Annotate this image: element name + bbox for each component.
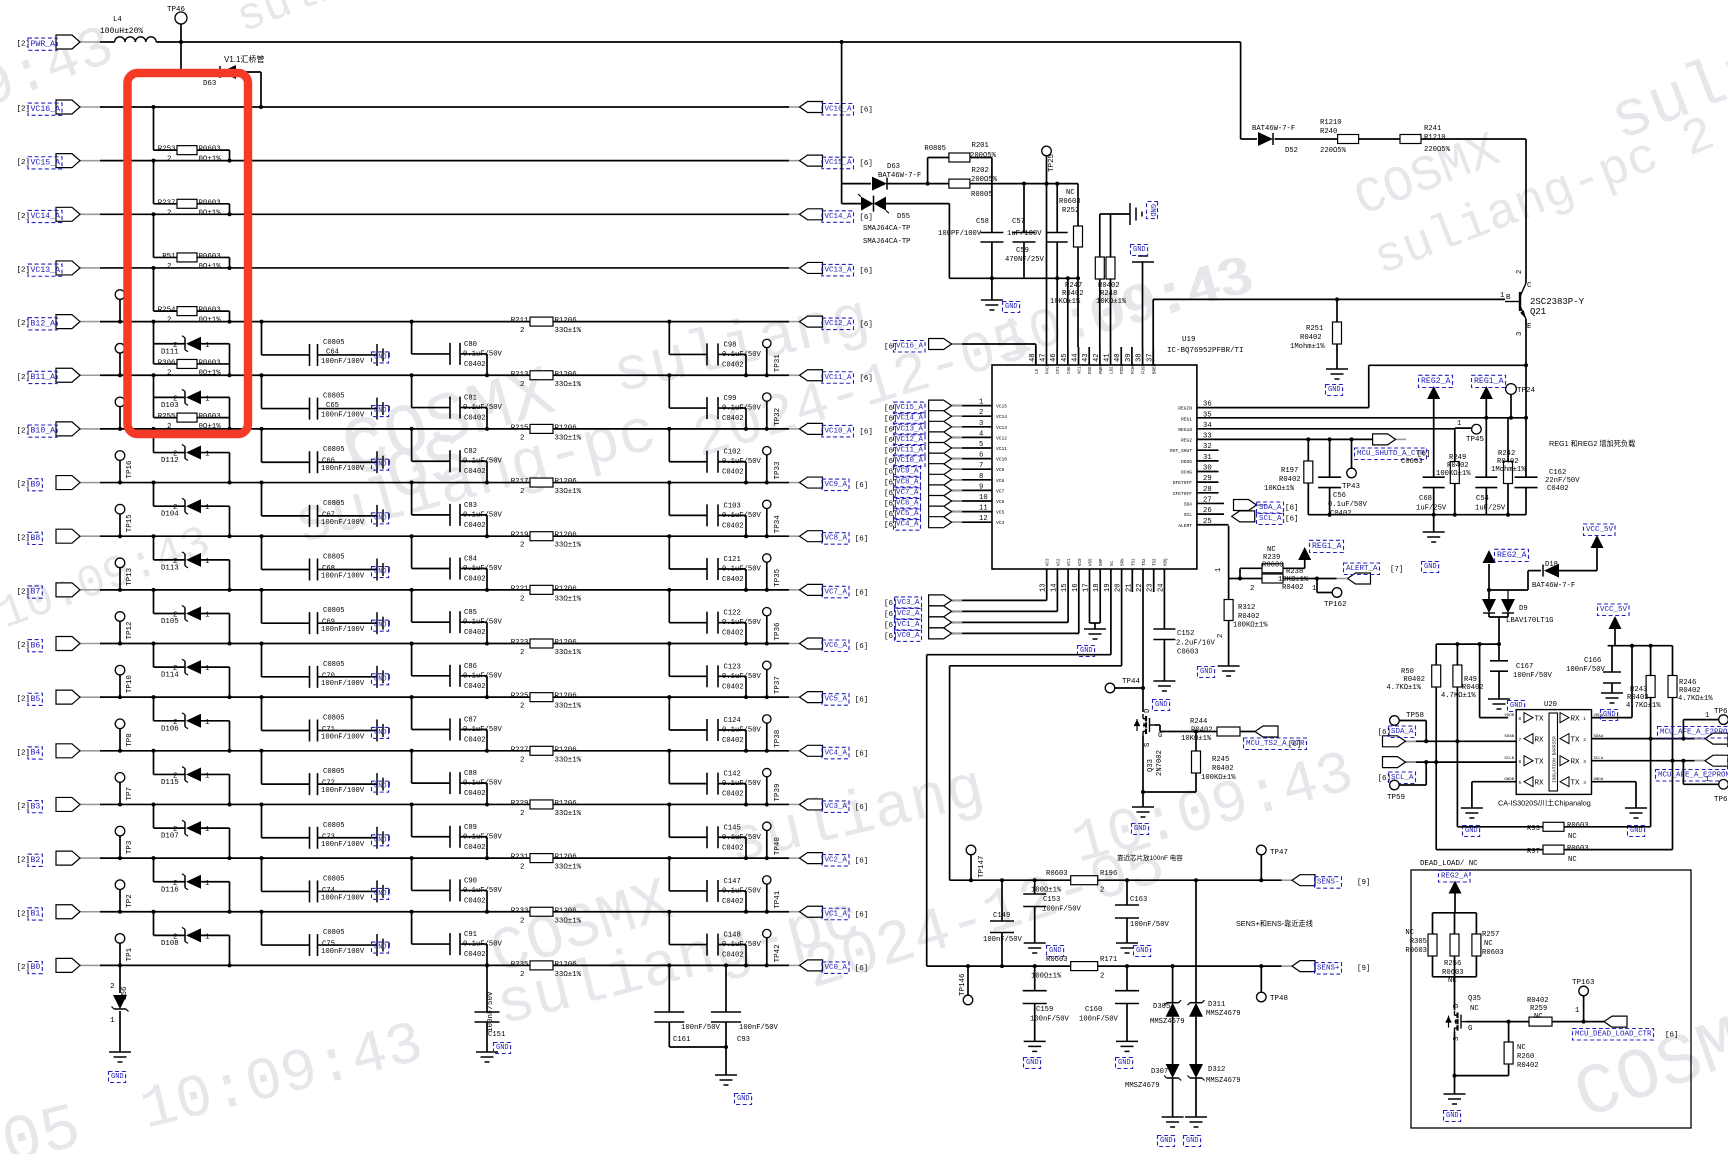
label C83	[463, 502, 503, 530]
svg-text:MMSZ4679: MMSZ4679	[1125, 1082, 1160, 1090]
svg-text:100nF/50V: 100nF/50V	[1566, 666, 1606, 674]
svg-text:100nF/100V: 100nF/100V	[321, 680, 365, 688]
ground C159	[1024, 1041, 1046, 1051]
junction R251 base	[1335, 297, 1339, 301]
label C121	[722, 556, 762, 584]
ground label Q33	[1132, 824, 1149, 835]
wire R51 left	[154, 214, 178, 257]
svg-text:VC13: VC13	[996, 425, 1007, 431]
wire C167 column	[1498, 659, 1500, 661]
svg-text:2: 2	[520, 488, 524, 496]
svg-text:GND: GND	[374, 514, 387, 522]
svg-text:0.1uF/50V: 0.1uF/50V	[463, 619, 503, 627]
test point TP34	[763, 500, 782, 536]
wire C149 top	[1001, 880, 1003, 921]
svg-text:VC2: VC2	[1057, 558, 1061, 566]
svg-text:PDSG: PDSG	[1121, 363, 1125, 374]
wire SDAB line	[1403, 740, 1516, 742]
svg-text:VC12_A: VC12_A	[825, 320, 853, 328]
svg-text:0.1uF/50V: 0.1uF/50V	[722, 458, 762, 466]
svg-text:MMSZ4679: MMSZ4679	[1206, 1077, 1241, 1085]
diode D115	[161, 766, 210, 787]
ground label C75	[372, 942, 389, 953]
junction PWR/TP46	[179, 40, 183, 44]
wire GNDA	[1592, 782, 1637, 808]
svg-text:1uF/25V: 1uF/25V	[1416, 505, 1447, 513]
capacitor C66	[310, 451, 318, 473]
wire C68 right	[318, 569, 378, 571]
junction VDDB rail	[1478, 642, 1482, 646]
test point TP33	[763, 447, 782, 483]
wire D106 left	[154, 697, 186, 721]
net label VC11_A IC	[894, 445, 926, 457]
svg-text:C0805: C0805	[323, 768, 345, 776]
net label VC14_A IC	[894, 413, 926, 425]
diode D307	[1164, 1064, 1181, 1081]
svg-text:2: 2	[520, 810, 524, 818]
resistor R241	[1400, 135, 1421, 144]
wire R248 down to pin41	[1110, 279, 1112, 347]
wire C88 right	[460, 783, 487, 804]
capacitor C64	[310, 344, 318, 366]
svg-text:R231: R231	[511, 854, 529, 862]
svg-text:D106: D106	[161, 725, 179, 733]
junction C74	[260, 856, 264, 860]
svg-text:100KΩ±1%: 100KΩ±1%	[1436, 470, 1471, 478]
svg-text:TP8: TP8	[126, 733, 134, 747]
svg-text:42: 42	[1093, 353, 1101, 362]
svg-text:C121: C121	[724, 556, 741, 564]
wire C102 right	[718, 462, 746, 483]
svg-text:DFETOFF: DFETOFF	[1173, 480, 1193, 486]
svg-text:D: D	[1144, 709, 1152, 713]
svg-text:TP1: TP1	[126, 947, 134, 961]
svg-text:TP3: TP3	[126, 840, 134, 854]
capacitor C91	[450, 933, 460, 955]
junction D107 bottom	[228, 856, 232, 860]
wire R97 line	[1436, 762, 1543, 850]
wire C166 bottom	[1611, 683, 1613, 693]
wire IC pin 6	[952, 458, 993, 460]
transistor Q21	[1519, 292, 1521, 311]
svg-text:TP34: TP34	[774, 515, 782, 534]
svg-text:C0402: C0402	[722, 415, 744, 423]
junction C93 gnd	[724, 1045, 728, 1049]
svg-text:[6]: [6]	[859, 321, 873, 329]
svg-text:TP44: TP44	[1122, 678, 1141, 686]
svg-text:C0402: C0402	[464, 844, 486, 852]
wire IC pin 12	[952, 521, 993, 523]
svg-text:39: 39	[1125, 353, 1133, 362]
wire TP58 link	[1399, 721, 1426, 742]
capacitor C84	[450, 558, 460, 580]
junction C124 top	[667, 695, 671, 699]
wire C123 right	[718, 676, 746, 697]
svg-text:R233: R233	[511, 907, 529, 915]
wire D9 out	[1489, 613, 1508, 644]
svg-text:PCHG: PCHG	[1132, 363, 1136, 374]
wire REG2 stem2	[1488, 564, 1490, 599]
net label VC16_A IC	[894, 341, 926, 353]
wire REG2 deadload stem	[1454, 894, 1456, 913]
svg-text:TS1: TS1	[1132, 558, 1136, 566]
wire row B2	[100, 857, 789, 859]
svg-text:R1206: R1206	[555, 693, 577, 701]
IC U19 bottom pin 21 stub	[1131, 569, 1133, 592]
svg-text:VC7: VC7	[996, 488, 1005, 494]
wire R197 bottom	[1307, 483, 1309, 515]
ground label GNDA	[1628, 826, 1645, 837]
svg-text:C0805: C0805	[323, 929, 345, 937]
wire VC16 flag to pin48	[952, 344, 1036, 365]
svg-text:220Ω5%: 220Ω5%	[1424, 146, 1451, 154]
junction D106 top	[152, 695, 156, 699]
net flag VC15_A to IC	[929, 400, 963, 411]
capacitor C72	[310, 773, 318, 795]
ground C68	[377, 559, 389, 581]
svg-text:ALERT_A: ALERT_A	[1346, 565, 1378, 573]
wire D113 left	[154, 536, 186, 560]
svg-text:4.7KΩ±1%: 4.7KΩ±1%	[1678, 695, 1713, 703]
svg-text:R0805: R0805	[971, 191, 993, 199]
svg-text:D52: D52	[1285, 147, 1298, 155]
svg-text:VC16_A: VC16_A	[31, 105, 61, 114]
svg-text:2N7002: 2N7002	[1156, 750, 1164, 776]
svg-text:0.1uF/50V: 0.1uF/50V	[722, 726, 762, 734]
junction D311 top	[1194, 878, 1198, 882]
junction C83 bottom	[485, 534, 489, 538]
junction R237 top	[152, 159, 156, 163]
svg-text:C0402: C0402	[464, 683, 486, 691]
svg-text:GND: GND	[111, 1073, 124, 1081]
svg-text:B0: B0	[31, 963, 41, 972]
wire row B3	[100, 803, 789, 805]
svg-text:C85: C85	[464, 609, 477, 617]
svg-text:B8: B8	[31, 534, 41, 543]
junction REG1 pin35	[1484, 416, 1488, 420]
svg-text:33Ω±1%: 33Ω±1%	[555, 917, 582, 925]
power flag REG2_A	[1419, 375, 1453, 399]
junction C99 top	[667, 373, 671, 377]
svg-text:C152: C152	[1177, 630, 1194, 638]
wire Q21 emitter	[1525, 319, 1527, 477]
svg-text:5: 5	[979, 441, 983, 449]
svg-text:C0402: C0402	[464, 736, 486, 744]
resistor R254	[158, 307, 221, 325]
wire D305 top	[1172, 966, 1174, 1002]
capacitor C75	[310, 934, 318, 956]
svg-text:[6]: [6]	[855, 858, 869, 866]
svg-text:33Ω±1%: 33Ω±1%	[555, 649, 582, 657]
wire R202 net down	[1077, 184, 1079, 226]
wire C73 right	[318, 837, 378, 839]
capacitor C70	[310, 666, 318, 688]
ground label C161 C93	[735, 1094, 752, 1105]
IC U19 top pin 47 stub	[1045, 347, 1047, 365]
wire R245 bottom	[1143, 773, 1196, 792]
wire D108 right	[201, 935, 230, 965]
svg-text:GND: GND	[374, 568, 387, 576]
junction C122 top	[667, 588, 671, 592]
svg-text:TP36: TP36	[774, 622, 782, 641]
svg-text:TP40: TP40	[774, 837, 782, 856]
svg-text:PACK: PACK	[1046, 363, 1050, 374]
net flag VC4_A to IC	[929, 517, 963, 528]
svg-text:D113: D113	[161, 564, 179, 572]
net label SCL_A 2	[1389, 772, 1416, 784]
wire C65 right	[318, 408, 378, 410]
svg-text:45: 45	[1061, 353, 1069, 362]
junction TP33	[765, 481, 769, 485]
svg-text:33Ω±1%: 33Ω±1%	[555, 488, 582, 496]
svg-text:2: 2	[520, 756, 524, 764]
junction C122 bottom	[744, 642, 748, 646]
resistor R252	[1074, 226, 1083, 247]
svg-text:TP162: TP162	[1324, 601, 1347, 609]
wire C124 right	[718, 730, 746, 751]
svg-text:R1206: R1206	[555, 478, 577, 486]
svg-text:GND: GND	[374, 461, 387, 469]
svg-text:0.1uF/50V: 0.1uF/50V	[463, 726, 503, 734]
connector B6	[17, 637, 102, 652]
svg-text:R201: R201	[972, 142, 989, 150]
svg-text:41: 41	[1104, 353, 1112, 362]
resistor R312	[1224, 600, 1233, 621]
ground C70	[377, 666, 389, 688]
junction TP18	[118, 373, 122, 377]
svg-text:R0402: R0402	[1279, 476, 1301, 484]
wire R243 bottom to SDAA	[1650, 698, 1652, 739]
junction C123 top	[667, 642, 671, 646]
ground label GNDB	[1463, 826, 1480, 837]
svg-text:0.1uF/50V: 0.1uF/50V	[463, 350, 503, 358]
svg-text:BREG: BREG	[1153, 363, 1157, 374]
svg-text:[6]: [6]	[859, 428, 873, 436]
svg-text:VC0_A: VC0_A	[897, 632, 920, 640]
wire C151 bottom	[486, 1022, 488, 1052]
svg-text:D305: D305	[1153, 1003, 1170, 1011]
svg-text:0Ω±1%: 0Ω±1%	[199, 317, 222, 325]
capacitor C87	[450, 718, 460, 740]
svg-text:DDSG: DDSG	[1181, 459, 1192, 465]
connector B4	[17, 744, 102, 759]
junction C85 bottom	[485, 642, 489, 646]
IC U19 body	[992, 365, 1197, 569]
net flag VC1_A	[789, 906, 868, 920]
net label VC7_A IC	[894, 487, 921, 499]
connector B0	[17, 958, 102, 973]
wire C75 left	[262, 912, 310, 945]
junction TP16	[118, 481, 122, 485]
test point TP38	[763, 715, 782, 751]
junction SDAA R243	[1649, 737, 1653, 741]
label C64	[321, 339, 365, 366]
junction C163 top	[1125, 878, 1129, 882]
junction C82 bottom	[485, 481, 489, 485]
svg-text:7: 7	[979, 462, 983, 470]
wire R49 bottom to SDA	[1456, 687, 1458, 741]
test point TP7	[115, 773, 134, 805]
svg-text:C0805: C0805	[323, 500, 345, 508]
svg-text:33Ω±1%: 33Ω±1%	[555, 864, 582, 872]
wire R50 bottom to SCL	[1435, 687, 1437, 762]
svg-text:R229: R229	[511, 800, 529, 808]
test point TP146	[959, 966, 973, 1005]
svg-text:TP16: TP16	[126, 460, 134, 479]
junction TP146	[966, 964, 970, 968]
label C85	[463, 609, 503, 637]
svg-text:C56: C56	[1333, 492, 1346, 500]
svg-text:SCL: SCL	[1184, 512, 1193, 518]
svg-text:3: 3	[1516, 332, 1524, 336]
ground C75	[377, 934, 389, 956]
svg-text:C0603: C0603	[1177, 649, 1199, 657]
wire C71 right	[318, 729, 378, 731]
junction D114 bottom	[228, 695, 232, 699]
resistor R245	[1192, 751, 1201, 773]
svg-text:6: 6	[979, 452, 983, 460]
resistor R213	[511, 371, 582, 389]
svg-text:R1206: R1206	[555, 532, 577, 540]
svg-text:SMAJ64CA-TP: SMAJ64CA-TP	[863, 225, 910, 233]
junction TP37	[765, 695, 769, 699]
junction SCLA R246	[1671, 759, 1675, 763]
capacitor C123	[707, 665, 718, 687]
svg-text:GND: GND	[1118, 1059, 1131, 1067]
junction C123 bottom	[744, 695, 748, 699]
svg-text:R260: R260	[1517, 1053, 1534, 1061]
junction SDAB TP58	[1424, 739, 1428, 743]
svg-text:8: 8	[979, 473, 983, 481]
net label VC15_A IC	[894, 402, 926, 414]
resistor R255	[158, 413, 221, 431]
resistor R246	[1668, 676, 1677, 698]
svg-text:100PF/100V: 100PF/100V	[938, 230, 982, 238]
svg-text:V1.1汇桥管: V1.1汇桥管	[224, 54, 264, 64]
junction TP42	[765, 963, 769, 967]
label C148	[722, 932, 762, 960]
svg-text:[6]: [6]	[855, 643, 869, 651]
label C84	[463, 556, 503, 584]
wire D111 pair left	[154, 322, 186, 364]
label C90	[463, 877, 503, 905]
svg-text:RX: RX	[1535, 737, 1545, 745]
svg-text:VC9_A: VC9_A	[896, 468, 919, 476]
wire R312 top	[1228, 579, 1230, 601]
test point TP18	[115, 343, 134, 375]
ground C64	[377, 344, 389, 366]
svg-text:2: 2	[1583, 737, 1586, 743]
svg-text:GND: GND	[1148, 204, 1156, 217]
junction C71	[260, 695, 264, 699]
ground Q33	[1132, 807, 1154, 817]
svg-text:2: 2	[167, 263, 171, 271]
svg-text:TP24: TP24	[1517, 387, 1536, 395]
svg-text:BAT46W-7-F: BAT46W-7-F	[878, 172, 921, 180]
svg-text:[6]: [6]	[884, 448, 898, 456]
svg-text:C0402: C0402	[722, 844, 744, 852]
svg-text:C162: C162	[1549, 469, 1566, 477]
svg-text:GND: GND	[1133, 246, 1146, 254]
svg-text:0.1uF/50V: 0.1uF/50V	[463, 672, 503, 680]
wire R202 out	[970, 183, 1078, 185]
resistor R227	[511, 746, 582, 764]
ground C161 C93	[715, 1075, 737, 1085]
svg-text:TX: TX	[1571, 780, 1581, 788]
junction R254 bottom	[228, 320, 232, 324]
svg-text:RX: RX	[1535, 780, 1545, 788]
svg-text:C151: C151	[488, 1031, 505, 1039]
wire C145 left	[669, 804, 707, 837]
svg-text:100Ω±1%: 100Ω±1%	[1031, 973, 1062, 981]
svg-text:PWR_A: PWR_A	[31, 40, 56, 49]
wire C87 right	[460, 729, 487, 750]
net flag VC10_A	[789, 423, 873, 437]
wire ALERT down	[1228, 526, 1230, 579]
svg-text:2: 2	[1516, 270, 1524, 274]
svg-text:[6]: [6]	[859, 375, 873, 383]
capacitor C73	[310, 827, 318, 849]
test point TP36	[763, 607, 782, 643]
ground C66	[377, 451, 389, 473]
svg-text:GND: GND	[1446, 1112, 1459, 1120]
svg-text:VC3_A: VC3_A	[825, 803, 848, 811]
svg-text:C160: C160	[1085, 1006, 1102, 1014]
wire VC2_A	[952, 569, 1058, 611]
wire pin22 to Q33	[1142, 569, 1144, 712]
resistor R197	[1304, 461, 1313, 483]
svg-text:VC8: VC8	[996, 478, 1005, 484]
svg-text:2: 2	[167, 156, 171, 164]
wire C162 bottom	[1525, 488, 1527, 515]
capacitor C124	[707, 719, 718, 741]
net flag VC6_A to IC	[929, 496, 963, 507]
svg-text:G: G	[1468, 1025, 1473, 1033]
svg-text:100nF/100V: 100nF/100V	[321, 841, 365, 849]
svg-text:VC15_A: VC15_A	[31, 158, 61, 167]
resistor R225	[511, 693, 582, 711]
svg-text:R244: R244	[1190, 718, 1207, 726]
DEAD_LOAD box frame	[1411, 870, 1691, 1128]
svg-text:37: 37	[1146, 353, 1154, 362]
junction D105 top	[152, 588, 156, 592]
ground label C69	[372, 620, 389, 631]
junction D108 bottom	[228, 963, 232, 967]
ground label D312	[1184, 1136, 1201, 1147]
svg-text:R0402: R0402	[1627, 694, 1649, 702]
junction D111 bottom	[228, 373, 232, 377]
capacitor C102	[707, 451, 718, 473]
wire C64 right	[318, 354, 378, 356]
wire D55 out	[886, 204, 949, 279]
wire rail 515	[1308, 514, 1526, 516]
svg-text:B3: B3	[31, 802, 41, 811]
svg-text:VC6: VC6	[996, 499, 1005, 505]
svg-text:VC14_A: VC14_A	[896, 415, 924, 423]
label C74	[321, 875, 365, 902]
label C67	[321, 500, 365, 527]
wire D311-D312	[1195, 1017, 1197, 1064]
junction R253 top	[152, 105, 156, 109]
svg-text:1: 1	[1457, 420, 1461, 428]
resistor R51	[162, 253, 221, 271]
svg-text:TP31: TP31	[774, 354, 782, 373]
svg-text:C161: C161	[673, 1036, 690, 1044]
svg-text:SDA: SDA	[1184, 501, 1193, 507]
svg-text:1: 1	[1215, 568, 1223, 572]
svg-text:2: 2	[520, 864, 524, 872]
svg-text:REG1_A: REG1_A	[1474, 377, 1504, 386]
